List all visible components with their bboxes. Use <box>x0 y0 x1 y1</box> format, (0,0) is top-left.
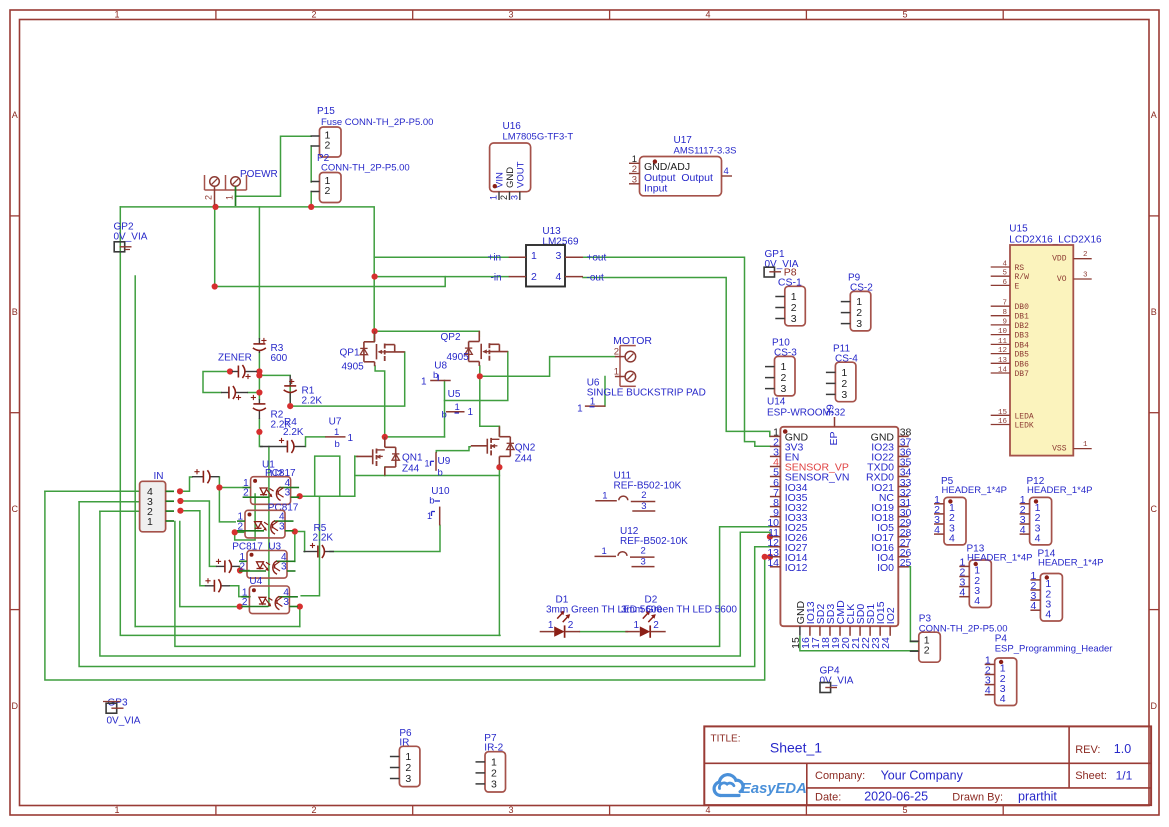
U14 pin 39 EP <box>825 404 841 445</box>
svg-text:DB0: DB0 <box>1015 303 1030 312</box>
svg-text:4: 4 <box>556 271 562 283</box>
svg-text:DB4: DB4 <box>1015 341 1030 350</box>
svg-text:-in: -in <box>491 272 502 283</box>
svg-text:2: 2 <box>924 645 930 657</box>
svg-text:0V_VIA: 0V_VIA <box>114 232 148 243</box>
wire R4 right to U7 <box>306 437 326 447</box>
capacitor R5 2.2K <box>303 543 334 558</box>
svg-text:1: 1 <box>602 490 607 501</box>
svg-text:1: 1 <box>114 805 119 815</box>
svg-text:U15: U15 <box>1009 224 1028 235</box>
label CS-1 <box>778 277 802 289</box>
wire R1 lower lead <box>289 383 291 406</box>
svg-text:1: 1 <box>602 546 607 557</box>
display U15 LCD2X16_LCD2X16 <box>1009 224 1102 456</box>
svg-text:Sheet:: Sheet: <box>1075 770 1107 782</box>
transistor QN2 Z44 <box>471 426 536 465</box>
svg-text:2: 2 <box>641 545 646 556</box>
screw terminal POEWR <box>204 169 278 206</box>
svg-text:39: 39 <box>825 404 837 416</box>
wire node to U2 pin2 <box>235 531 244 533</box>
regulator U16 LM7805G-TF3-T <box>489 121 574 200</box>
svg-text:1.0: 1.0 <box>1114 742 1131 756</box>
svg-text:U17: U17 <box>674 135 693 146</box>
svg-text:CONN-TH_2P-P5.00: CONN-TH_2P-P5.00 <box>321 163 410 174</box>
svg-text:2.2K: 2.2K <box>313 533 334 544</box>
svg-text:3: 3 <box>641 501 646 512</box>
svg-text:16: 16 <box>998 418 1008 426</box>
label P15 value <box>321 117 433 128</box>
svg-text:QN2: QN2 <box>515 443 536 454</box>
converter U13 LM2569 <box>488 226 607 287</box>
svg-text:2: 2 <box>614 347 619 358</box>
wire IN pin3 to ESP IO27 <box>79 502 770 667</box>
svg-text:prarthit: prarthit <box>1018 790 1057 804</box>
svg-text:QP1: QP1 <box>340 348 360 359</box>
svg-text:IN: IN <box>154 471 164 482</box>
wire QN1/QN2 source rail <box>355 475 500 477</box>
header P13 HEADER_1*4P <box>959 544 1032 608</box>
svg-text:IR: IR <box>399 738 409 749</box>
wire U2 pin3 down to U3 pin4 <box>294 532 296 562</box>
wire MOTOR pin1 to U6 pad <box>604 377 606 407</box>
wire QP1 drain down to QN1 node <box>375 366 385 437</box>
svg-text:3: 3 <box>283 597 289 608</box>
wire to U2 pin2 node <box>235 494 255 540</box>
svg-text:13: 13 <box>998 357 1008 365</box>
svg-text:b: b <box>438 468 443 479</box>
wire net VCC top H-207 and down to QP1 <box>120 207 374 342</box>
wire between LED D1 and D2 <box>580 631 627 633</box>
wire P2 pin2 to node <box>310 192 312 207</box>
svg-text:3: 3 <box>285 488 291 499</box>
wire R2 bottom to R4 left <box>259 419 262 447</box>
svg-text:3: 3 <box>279 521 285 532</box>
svg-text:QN1: QN1 <box>402 453 423 464</box>
svg-text:GND: GND <box>505 167 516 188</box>
connector P15 Fuse <box>311 106 342 157</box>
svg-text:U5: U5 <box>448 389 461 400</box>
svg-text:3: 3 <box>405 773 411 785</box>
connector P3 <box>910 632 941 662</box>
svg-text:1/1: 1/1 <box>1116 768 1133 782</box>
svg-text:+in: +in <box>488 253 502 264</box>
svg-text:Date:: Date: <box>815 791 841 803</box>
svg-text:2: 2 <box>240 562 246 573</box>
svg-text:E: E <box>1015 282 1020 291</box>
svg-text:2: 2 <box>311 9 316 19</box>
svg-text:Company:: Company: <box>815 770 865 782</box>
wire stub column to H-626 <box>134 276 136 627</box>
svg-text:1: 1 <box>334 427 339 438</box>
wire +in to U13 pin1 <box>374 256 509 258</box>
svg-text:3: 3 <box>781 383 787 395</box>
svg-text:B: B <box>1151 307 1157 317</box>
svg-text:b: b <box>433 370 438 381</box>
svg-text:1: 1 <box>468 407 474 418</box>
wire R3 to R2 segment <box>258 353 260 399</box>
wire R1 top to cap column <box>259 374 290 376</box>
svg-text:DB3: DB3 <box>1015 332 1030 341</box>
svg-text:LEDK: LEDK <box>1015 422 1034 431</box>
label PC817 U2 <box>268 503 299 514</box>
connector P7 IR-2 <box>476 733 506 792</box>
svg-text:Sheet_1: Sheet_1 <box>770 740 822 756</box>
svg-text:B: B <box>12 307 18 317</box>
svg-text:5: 5 <box>1002 270 1007 278</box>
svg-text:0V_VIA: 0V_VIA <box>107 716 141 727</box>
svg-text:7: 7 <box>1002 300 1007 308</box>
wire IN pin1 branch to U4 pin2 <box>180 522 240 607</box>
potentiometer U11 REF-B502-10K <box>595 471 681 512</box>
transistor QP1 4905 <box>340 331 405 372</box>
connector P2 <box>311 153 342 203</box>
wire R4 lead down through optos <box>268 447 270 607</box>
capacitor at IN pin4 <box>192 469 219 483</box>
wire -in tee to U13 pin2 <box>374 276 509 278</box>
wire QN2 gate to U9 <box>436 447 470 452</box>
wire cap3 to U4 pin1 <box>230 586 250 597</box>
label U1 <box>262 460 283 481</box>
svg-text:TITLE:: TITLE: <box>711 734 741 745</box>
U15 left pins <box>991 261 1034 431</box>
svg-text:4: 4 <box>1002 261 1007 269</box>
svg-text:2.2K: 2.2K <box>283 427 304 438</box>
svg-text:4: 4 <box>985 685 991 697</box>
svg-text:2: 2 <box>641 490 646 501</box>
svg-text:3: 3 <box>856 318 862 330</box>
svg-text:14: 14 <box>998 367 1008 375</box>
switch U8 <box>421 361 451 388</box>
svg-text:1: 1 <box>590 397 596 408</box>
svg-text:Drawn By:: Drawn By: <box>952 791 1003 803</box>
svg-text:R/W: R/W <box>1015 273 1030 282</box>
header P12 HEADER_1*4P <box>1020 476 1093 545</box>
LED D1 3mm Green TH LED 5600 <box>540 595 663 638</box>
svg-text:HEADER_1*4P: HEADER_1*4P <box>942 485 1007 496</box>
svg-text:CS-4: CS-4 <box>835 354 858 365</box>
svg-text:3: 3 <box>1083 272 1088 280</box>
wire zener loop <box>203 372 230 393</box>
capacitor R2 2.2K <box>251 395 266 419</box>
wire QN1 source stub <box>384 467 386 476</box>
svg-text:4: 4 <box>959 587 965 599</box>
svg-text:10: 10 <box>998 328 1008 336</box>
connector P10 CS-3 <box>765 338 797 396</box>
svg-text:VOUT: VOUT <box>516 161 527 188</box>
svg-text:3: 3 <box>509 195 519 200</box>
wire column to R3 top <box>258 207 260 338</box>
LED D2 3mm Green TH LED 5600 <box>621 595 737 638</box>
svg-text:U9: U9 <box>438 456 451 467</box>
svg-text:25: 25 <box>900 557 912 569</box>
wire U2 pin3 to R5 left <box>295 532 305 552</box>
wire IN pin3 row left <box>79 501 140 503</box>
svg-text:IR-2: IR-2 <box>484 743 503 754</box>
wire U8 down to QN1 node <box>444 381 446 437</box>
U14 right pins 38-25 <box>866 427 912 574</box>
module U14 ESP-WROOM-32 <box>767 397 898 627</box>
wire QN1 node H <box>385 436 445 438</box>
svg-text:LCD2X16_LCD2X16: LCD2X16_LCD2X16 <box>1009 235 1102 246</box>
svg-text:D: D <box>1151 701 1158 711</box>
potentiometer U12 REF-B502-10K <box>595 526 689 567</box>
svg-text:A: A <box>12 110 18 120</box>
connector P6 IR <box>390 728 420 787</box>
label R3 <box>271 343 288 364</box>
svg-text:QP2: QP2 <box>441 332 461 343</box>
svg-text:1: 1 <box>225 195 235 200</box>
svg-text:ESP_Programming_Header: ESP_Programming_Header <box>995 644 1113 655</box>
svg-text:-out: -out <box>587 272 604 283</box>
wire zener cap2 to column <box>248 392 259 394</box>
wire +out to ESP pin2 3V3 <box>583 257 770 446</box>
svg-text:EasyEDA: EasyEDA <box>741 781 807 797</box>
svg-text:1: 1 <box>425 459 430 469</box>
svg-text:1: 1 <box>614 367 619 378</box>
capacitor R4 2.2K <box>260 438 306 453</box>
svg-text:A: A <box>1151 110 1157 120</box>
svg-text:1: 1 <box>147 516 153 528</box>
svg-text:11: 11 <box>998 338 1008 346</box>
label ZENER <box>218 353 252 364</box>
label R1 <box>302 386 323 407</box>
svg-text:2: 2 <box>1083 251 1088 259</box>
svg-text:0V_VIA: 0V_VIA <box>820 676 854 687</box>
connector IN <box>140 471 174 532</box>
svg-text:b: b <box>429 496 434 507</box>
svg-text:6: 6 <box>1002 279 1007 287</box>
header P4 ESP_Programming_Header <box>985 634 1113 706</box>
svg-text:9: 9 <box>1002 318 1007 326</box>
transistor QP2 4905 <box>441 331 508 366</box>
wire ESP pin15 GND to P3 pin2 <box>800 637 919 651</box>
wire node to U3 pin2 <box>240 570 249 572</box>
wire IN pin3 to cap2 <box>180 501 216 566</box>
wire P15 pin2 to P2 pin1 <box>310 146 312 182</box>
label PC817 U3 <box>232 542 281 553</box>
svg-text:IO0: IO0 <box>877 562 894 574</box>
header P5 HEADER_1*4P <box>934 476 1007 545</box>
wire QN2 source down to H-635 <box>498 467 500 635</box>
svg-text:DB1: DB1 <box>1015 313 1030 322</box>
wire IN pin2 to cap3 <box>180 511 204 586</box>
optocoupler U4 PC817 <box>241 586 298 614</box>
capacitor at IN pin2 <box>205 578 230 592</box>
wire IN pin2 to ESP IO26 <box>100 511 770 656</box>
wire QP1 node to QP2 top <box>375 331 480 336</box>
U14 bottom pins 15-24 <box>790 600 897 649</box>
wire IN pin1 to ESP IO25 <box>175 522 770 647</box>
wire R1 bottom to QP1 source lead <box>290 352 405 406</box>
connector P9 CS-2 <box>841 273 873 331</box>
svg-text:3: 3 <box>491 779 497 791</box>
svg-text:HEADER_1*4P: HEADER_1*4P <box>1038 558 1103 569</box>
svg-text:D: D <box>11 701 18 711</box>
wire node down to U2 pin1 <box>219 488 235 522</box>
svg-text:2: 2 <box>325 185 331 197</box>
svg-text:4: 4 <box>705 9 710 19</box>
label R4 <box>283 417 304 438</box>
transistor QN1 Z44 <box>356 437 423 476</box>
svg-text:2: 2 <box>531 271 537 283</box>
svg-text:600: 600 <box>271 353 288 364</box>
U14 left pins 1-14 <box>767 427 849 574</box>
capacitor at IN pin3 <box>216 559 240 573</box>
svg-text:1: 1 <box>427 511 432 521</box>
svg-text:4: 4 <box>934 524 940 536</box>
svg-text:C: C <box>11 504 18 514</box>
svg-text:3: 3 <box>556 250 562 262</box>
svg-text:LEDA: LEDA <box>1015 412 1034 421</box>
svg-text:C: C <box>1151 504 1158 514</box>
svg-text:REV:: REV: <box>1075 744 1100 756</box>
pad U6 SINGLE BUCKSTRIP PAD <box>577 378 706 415</box>
connector P8 CS-1 <box>775 286 805 326</box>
svg-text:1: 1 <box>455 402 460 413</box>
svg-text:24: 24 <box>880 637 892 649</box>
svg-text:2: 2 <box>243 488 249 499</box>
switch U7 <box>325 417 353 451</box>
svg-text:4: 4 <box>1000 693 1006 705</box>
wire QP2 drain to QN2 drain <box>480 366 500 436</box>
svg-text:2: 2 <box>238 521 244 532</box>
label P2 value <box>321 163 410 174</box>
svg-text:4: 4 <box>705 805 710 815</box>
wire U1 pin3 to riser <box>300 495 355 497</box>
wire H-626 to U4 pin3 riser <box>135 626 300 628</box>
capacitor ZENER lower <box>221 386 248 400</box>
svg-text:SINGLE BUCKSTRIP PAD: SINGLE BUCKSTRIP PAD <box>587 387 706 398</box>
svg-text:2.2K: 2.2K <box>302 396 323 407</box>
wire IN pin4 up to cap <box>180 477 192 491</box>
wire ESP IO0 to P3 pin1 <box>907 567 919 642</box>
optocoupler U1 PC817 <box>243 477 300 505</box>
wire POEWR pin1 to P15 pin1 <box>236 136 312 196</box>
svg-text:2: 2 <box>499 195 509 200</box>
label PC817 U1 <box>265 468 296 479</box>
svg-text:REF-B502-10K: REF-B502-10K <box>614 480 682 491</box>
svg-text:AMS1117-3.3S: AMS1117-3.3S <box>674 146 737 157</box>
svg-text:P15: P15 <box>317 106 335 117</box>
svg-text:3: 3 <box>632 174 637 185</box>
via GP4 0V_VIA <box>820 666 854 693</box>
svg-text:3: 3 <box>508 9 513 19</box>
svg-text:U16: U16 <box>503 121 522 132</box>
svg-text:3: 3 <box>841 389 847 401</box>
svg-text:1: 1 <box>548 620 554 631</box>
svg-text:DB5: DB5 <box>1015 351 1030 360</box>
label P3 <box>919 614 932 625</box>
wire down to U4 pin4 <box>301 496 319 596</box>
svg-text:HEADER_1*4P: HEADER_1*4P <box>1027 485 1092 496</box>
wire loop above U1 pin3 net <box>315 456 340 496</box>
svg-text:b: b <box>335 439 340 450</box>
regulator U17 AMS1117-3.3S <box>629 135 737 196</box>
svg-text:CS-3: CS-3 <box>774 348 797 359</box>
svg-text:1: 1 <box>1083 441 1088 449</box>
svg-text:Fuse CONN-TH_2P-P5.00: Fuse CONN-TH_2P-P5.00 <box>321 117 433 128</box>
capacitor R1 2.2K <box>284 375 297 403</box>
svg-text:+out: +out <box>587 253 607 264</box>
via GP3 0V_VIA <box>103 698 141 727</box>
optocoupler U3 PC817 <box>239 551 296 579</box>
svg-text:Z44: Z44 <box>515 454 533 465</box>
svg-text:RS: RS <box>1015 264 1025 273</box>
svg-text:2020-06-25: 2020-06-25 <box>864 790 928 804</box>
svg-text:DB6: DB6 <box>1015 360 1030 369</box>
svg-text:3mm Green TH LED 5600: 3mm Green TH LED 5600 <box>621 604 737 615</box>
wire IN pin2 row left <box>100 510 140 512</box>
svg-text:1: 1 <box>634 620 640 631</box>
svg-text:4: 4 <box>1045 609 1051 621</box>
svg-text:12: 12 <box>998 347 1007 355</box>
capacitor R3 600 <box>253 338 267 353</box>
svg-text:4: 4 <box>1031 600 1037 612</box>
svg-text:HEADER_1*4P: HEADER_1*4P <box>967 553 1032 564</box>
svg-text:1: 1 <box>348 433 354 444</box>
svg-text:U13: U13 <box>542 226 561 237</box>
svg-text:1: 1 <box>114 9 119 19</box>
svg-text:EP: EP <box>828 431 840 445</box>
svg-text:REF-B502-10K: REF-B502-10K <box>620 536 688 547</box>
svg-text:3: 3 <box>508 805 513 815</box>
svg-text:1: 1 <box>577 403 583 414</box>
svg-text:4: 4 <box>974 595 980 607</box>
label U4 <box>249 576 262 587</box>
svg-text:4905: 4905 <box>447 352 470 363</box>
svg-text:U14: U14 <box>767 397 786 408</box>
switch U10 <box>427 486 450 525</box>
label R2 <box>271 410 292 431</box>
label P3 value <box>919 624 1008 635</box>
capacitor ZENER upper <box>232 365 257 379</box>
wire QP2 source to U5 row <box>445 352 508 401</box>
title block <box>704 726 1151 805</box>
svg-text:2: 2 <box>568 620 574 631</box>
svg-text:5: 5 <box>902 805 907 815</box>
svg-text:4: 4 <box>1020 524 1026 536</box>
svg-text:1: 1 <box>531 250 537 262</box>
svg-text:Input: Input <box>644 183 667 195</box>
wire IN pin4 row left <box>45 490 140 492</box>
svg-text:CS-2: CS-2 <box>850 283 873 294</box>
screw terminal MOTOR <box>613 335 652 387</box>
svg-text:IO12: IO12 <box>785 562 808 574</box>
svg-text:VSS: VSS <box>1052 445 1067 454</box>
wire riser at 354.8 <box>354 456 356 496</box>
svg-text:2: 2 <box>653 620 659 631</box>
wire GP2 column down to bottom nest H-635 <box>120 207 500 636</box>
svg-text:2: 2 <box>311 805 316 815</box>
svg-text:1: 1 <box>489 195 499 200</box>
svg-text:8: 8 <box>1002 309 1007 317</box>
svg-text:ZENER: ZENER <box>218 353 252 364</box>
wire QP2 drain node to MOTOR pin2 <box>480 357 615 377</box>
wire to ESP pin13 stub <box>765 556 770 558</box>
svg-text:4: 4 <box>1035 532 1041 544</box>
svg-text:VO: VO <box>1057 275 1067 284</box>
switch U5 <box>442 389 474 421</box>
svg-text:4905: 4905 <box>342 362 365 373</box>
svg-text:LM7805G-TF3-T: LM7805G-TF3-T <box>503 132 574 143</box>
svg-text:POEWR: POEWR <box>240 169 278 180</box>
switch U9 <box>425 452 451 478</box>
svg-text:IO2: IO2 <box>885 607 897 624</box>
svg-text:b: b <box>442 410 447 421</box>
wire IN pin4 to ESP IO14 riser <box>45 491 765 680</box>
wire cap2 to U3 pin2 node <box>239 566 241 570</box>
